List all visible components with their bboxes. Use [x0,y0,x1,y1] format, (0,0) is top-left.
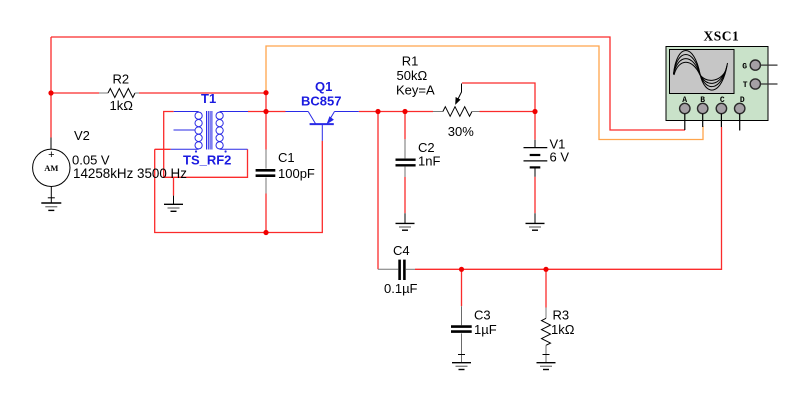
wire transformer bottom-left to bus corner [155,148,171,150]
capacitor C3 [451,306,472,363]
wire V1 bottom to ground [534,177,536,214]
svg-text:T1: T1 [201,91,216,106]
ground below V1 [526,213,545,230]
wire transformer top-right to base node [248,111,266,113]
junction node orange/R2 [263,90,268,95]
svg-text:30%: 30% [448,124,474,139]
svg-text:D: D [740,96,745,105]
svg-text:+: + [48,149,54,161]
svg-text:AM: AM [44,163,58,173]
wire C2 bottom to ground [404,177,406,213]
wire base node to Q1 [266,111,286,113]
svg-text:XSC1: XSC1 [704,29,740,44]
svg-text:T: T [743,81,748,90]
junction node V1 [532,109,537,114]
svg-text:1µF: 1µF [474,322,497,337]
svg-text:C: C [720,96,725,105]
ground below C2 [396,213,415,230]
wire transformer top-left loop to bottom-right [164,112,248,178]
source V2 [33,138,70,204]
wire C3 top [461,269,463,306]
ground below C3 [452,363,471,370]
wire R2 right to base node [139,92,266,94]
svg-text:50kΩ: 50kΩ [397,68,428,83]
wire V2 top vertical [50,37,52,138]
svg-text:1kΩ: 1kΩ [551,322,575,337]
wire C4 right to scope C [415,127,722,269]
wire V1 node down [534,112,536,140]
wire R1 wiper top [462,83,535,112]
svg-text:C3: C3 [474,308,491,323]
wire transformer ground tap [173,177,175,195]
resistor R3 [542,308,551,363]
wire R1 right to V1 node [480,111,536,113]
junction node emitter/C4 [375,109,380,114]
svg-text:B: B [700,96,705,105]
ground below transformer [164,196,183,212]
wire top bus V2 to scope A [51,37,685,130]
svg-text:1kΩ: 1kΩ [110,98,134,113]
svg-text:14258kHz 3500 Hz: 14258kHz 3500 Hz [73,166,187,181]
oscilloscope XSC1 [666,47,778,131]
svg-text:0.1µF: 0.1µF [384,281,418,296]
svg-text:G: G [742,62,747,71]
svg-text:R3: R3 [553,308,570,323]
junction node R3 [543,267,548,272]
transistor Q1 [286,112,359,141]
svg-text:1nF: 1nF [418,154,440,169]
wire R3 top [545,269,547,307]
resistor R2 [99,89,139,98]
svg-text:Q1: Q1 [315,79,332,94]
junction node C2 [402,109,407,114]
svg-text:C4: C4 [393,243,410,258]
svg-text:R1: R1 [402,53,419,68]
junction node C1/bus [263,230,268,235]
wire C1 bottom to bus [265,194,267,233]
svg-text:V2: V2 [74,128,90,143]
svg-text:TS_RF2: TS_RF2 [183,153,231,168]
wire R2 left [51,92,99,94]
capacitor C1 [256,150,276,194]
svg-text:R2: R2 [113,72,130,87]
svg-text:BC857: BC857 [301,94,341,109]
wire Q1 collector down to bus [155,141,323,233]
svg-text:C1: C1 [278,150,295,165]
svg-text:0.05 V: 0.05 V [72,152,110,167]
ground below V2 [41,203,61,210]
ground below R3 [537,363,556,370]
junction node C3 [459,267,464,272]
wire emitter node down to C4 [377,112,379,270]
svg-text:100pF: 100pF [278,166,315,181]
potentiometer R1 [433,84,480,117]
wire node down to C1 [265,93,267,150]
svg-text:A: A [682,96,687,105]
junction node base/transformer [263,109,268,114]
transformer T1 [171,111,248,153]
capacitor C2 [396,139,416,177]
junction node at V2/R2 [48,90,53,95]
svg-text:Key=A: Key=A [396,82,435,97]
battery V1 [524,140,548,177]
wire Q1 emitter to R1 line [359,111,433,113]
wire orange node to scope B [266,46,703,140]
capacitor C4 [378,260,415,280]
wire C2 node down [404,112,406,140]
svg-text:6 V: 6 V [550,150,570,165]
